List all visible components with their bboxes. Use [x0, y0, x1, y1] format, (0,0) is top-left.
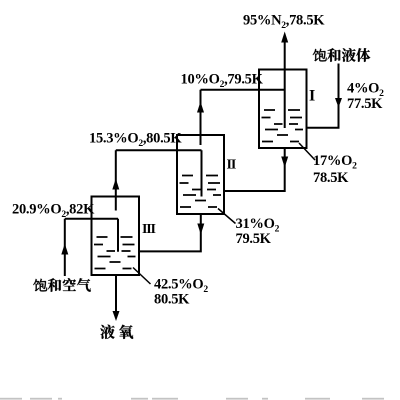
svg-text:80.5K: 80.5K: [154, 292, 190, 308]
svg-text:78.5K: 78.5K: [313, 170, 349, 186]
svg-text:15.3%O2​,80.5K: 15.3%O2​,80.5K: [89, 131, 182, 150]
svg-text:III: III: [142, 222, 155, 237]
svg-text:77.5K: 77.5K: [347, 96, 383, 112]
svg-text:79.5K: 79.5K: [236, 231, 272, 247]
svg-text:17%O2​: 17%O2​: [313, 153, 357, 172]
svg-text:II: II: [227, 158, 236, 173]
svg-text:I: I: [309, 88, 315, 105]
svg-text:20.9%O2​,82K: 20.9%O2​,82K: [12, 202, 95, 221]
